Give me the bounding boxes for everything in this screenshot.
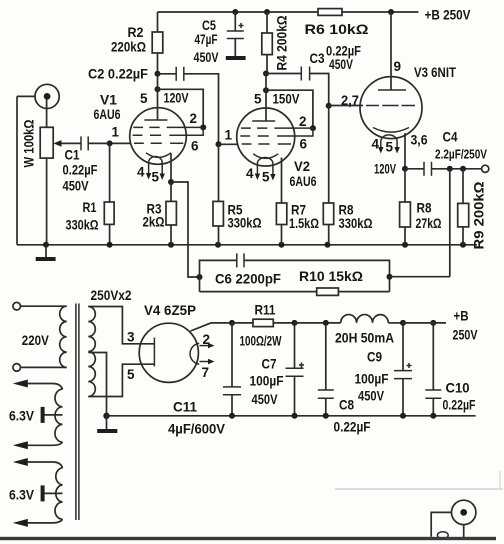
node C2 / V1 plate (155, 71, 161, 77)
svg-text:450V: 450V (252, 391, 279, 407)
svg-text:1: 1 (112, 125, 120, 140)
node V2 pin2 (310, 125, 316, 131)
svg-text:0.22µF: 0.22µF (443, 397, 476, 413)
svg-text:100Ω/2W: 100Ω/2W (240, 333, 283, 349)
tube V4 6Z5P rectifier (139, 323, 198, 382)
wire V1 grid pin1 (110, 142, 131, 144)
wire secondary bottom to V4 pin 5 (88, 364, 154, 396)
capacitor C3 (266, 73, 301, 75)
choke 20H 50mA (341, 315, 389, 323)
wire secondary center tap (88, 353, 106, 416)
6.3V winding 2 top arrow (25, 461, 53, 463)
transformer secondary 250Vx2 winding (88, 307, 95, 397)
svg-text:6: 6 (191, 139, 199, 154)
svg-text:C6 2200pF: C6 2200pF (215, 271, 281, 287)
svg-text:C3: C3 (310, 50, 325, 66)
capacitor C5 (234, 12, 236, 31)
capacitor C7 (294, 323, 296, 368)
wire choke to C9 node (388, 322, 403, 324)
wire 150V box to pins 2,6 of V2 (266, 90, 313, 128)
svg-text:330kΩ: 330kΩ (66, 217, 99, 233)
wire secondary top to V4 pin 3 (88, 307, 154, 344)
resistor R11 (232, 322, 253, 324)
svg-text:2: 2 (299, 114, 307, 129)
svg-text:330kΩ: 330kΩ (339, 215, 373, 231)
node V2 plate box (263, 87, 269, 93)
svg-text:C4: C4 (443, 129, 458, 145)
wire V1 cathode lead (170, 154, 172, 183)
resistor R1 (109, 143, 111, 202)
wire jack left leg (431, 512, 451, 536)
wire V2 plate lead (265, 90, 267, 121)
page bottom border (0, 537, 496, 540)
resistor R7 (276, 203, 286, 225)
capacitor C9 (402, 323, 404, 371)
svg-text:V2: V2 (294, 158, 310, 174)
transformer primary 220V winding (60, 306, 67, 367)
svg-text:6AU6: 6AU6 (290, 173, 317, 189)
transformer core (75, 304, 77, 521)
wire left down to ground bus (16, 96, 18, 244)
svg-text:5: 5 (386, 140, 394, 155)
svg-text:250Vx2: 250Vx2 (91, 287, 132, 303)
node C6 right (387, 274, 393, 280)
svg-text:150V: 150V (273, 91, 301, 107)
svg-text:6.3V: 6.3V (9, 408, 35, 424)
svg-text:47µF: 47µF (195, 31, 218, 47)
6.3V winding 2 center tap (44, 492, 62, 494)
svg-text:20H 50mA: 20H 50mA (335, 330, 394, 346)
svg-text:9: 9 (394, 59, 402, 74)
svg-text:R8: R8 (417, 200, 432, 216)
svg-text:6.3V: 6.3V (9, 487, 35, 503)
svg-text:4: 4 (137, 165, 145, 180)
svg-text:4µF/600V: 4µF/600V (168, 421, 226, 437)
svg-text:27kΩ: 27kΩ (416, 215, 442, 231)
svg-text:C11: C11 (173, 399, 197, 415)
svg-text:C8: C8 (339, 397, 354, 413)
capacitor C6 (200, 260, 237, 291)
node C5 top (232, 9, 238, 15)
tube V2 6AU6 (237, 108, 295, 166)
node C6 left (197, 274, 203, 280)
svg-text:3: 3 (127, 330, 135, 345)
svg-text:450V: 450V (329, 56, 353, 72)
wire feedback from V1 cathode (171, 182, 200, 277)
capacitor C11 (231, 323, 233, 387)
capacitor C10 (432, 323, 434, 390)
6.3V winding 1 top arrow (25, 383, 53, 385)
wire V4 cathode output (191, 323, 233, 331)
cathode arrows V4 pins 2,7 (200, 345, 210, 347)
resistor R10 (200, 291, 317, 293)
heater arrows V1 pins 4,5 (148, 170, 150, 174)
capacitor C2 (158, 73, 177, 75)
node C11 top (229, 320, 235, 326)
svg-text:120V: 120V (164, 90, 190, 106)
6.3V winding 1 center tap (44, 414, 62, 416)
ground under C5 (226, 56, 246, 60)
wire C2 to V2 grid (184, 74, 219, 145)
svg-text:5: 5 (262, 170, 270, 185)
node V3 plate (388, 9, 394, 15)
wire top B+ bus left (158, 11, 319, 13)
wire top B+ bus right (342, 11, 419, 13)
svg-text:120V: 120V (374, 161, 396, 177)
mains terminal top (13, 302, 21, 310)
wire V1 plate lead (157, 89, 159, 120)
potentiometer W 100k (46, 99, 48, 127)
node C7 top (292, 320, 298, 326)
wire mains bottom (21, 366, 67, 368)
svg-text:4: 4 (246, 166, 254, 181)
wire V2 cathode lead (281, 158, 283, 204)
node V1 grid (107, 140, 113, 146)
svg-text:250V: 250V (453, 327, 479, 343)
capacitor C4 (405, 168, 424, 170)
feedback riser from output (449, 169, 451, 277)
svg-text:0.22µF: 0.22µF (63, 162, 98, 178)
svg-text:2,7: 2,7 (341, 92, 359, 108)
svg-text:220V: 220V (22, 332, 50, 348)
svg-text:450V: 450V (358, 388, 385, 404)
input jack (35, 84, 59, 108)
resistor R5 (216, 141, 222, 147)
node V3 cathode 120V (402, 166, 408, 172)
wire V3 cathode lead (404, 133, 406, 169)
svg-text:2.2µF/250V: 2.2µF/250V (435, 147, 487, 162)
resistor R8 330k (326, 103, 332, 109)
wire jack bottom leg (463, 525, 465, 537)
ground symbol transformer (106, 416, 108, 429)
resistor R3 (170, 182, 172, 201)
svg-text:+B 250V: +B 250V (425, 7, 472, 23)
svg-text:R10 15kΩ: R10 15kΩ (299, 268, 363, 284)
resistor R6 (318, 9, 342, 16)
svg-text:3,6: 3,6 (411, 132, 428, 148)
wire feedback to C6 network (390, 276, 450, 278)
svg-text:W 100kΩ: W 100kΩ (21, 120, 37, 168)
svg-text:R1: R1 (83, 199, 97, 215)
svg-text:450V: 450V (63, 178, 90, 194)
resistor R4 (266, 12, 268, 33)
svg-text:5: 5 (140, 91, 148, 106)
svg-text:0.22µF: 0.22µF (334, 419, 371, 435)
mains terminal bottom (13, 364, 21, 372)
resistor R8 27k (404, 169, 406, 202)
svg-text:C2 0.22µF: C2 0.22µF (88, 66, 148, 82)
node V1 plate box (155, 86, 161, 92)
svg-text:450V: 450V (194, 49, 220, 65)
node center tap ground (103, 413, 109, 419)
svg-text:6AU6: 6AU6 (94, 106, 121, 122)
node R4 top (264, 9, 270, 15)
svg-text:C7: C7 (262, 356, 277, 372)
output jack bottom right (452, 500, 476, 524)
resistor R9 (462, 169, 464, 204)
wire mains top (21, 305, 67, 307)
tube V1 6AU6 (130, 108, 187, 165)
wire to choke (295, 322, 341, 324)
node after C4 (447, 166, 453, 172)
resistor R2 (157, 12, 159, 32)
bottom ground bus (107, 415, 476, 417)
node C8 top (323, 320, 329, 326)
svg-text:2: 2 (203, 332, 211, 347)
svg-text:C1: C1 (65, 147, 80, 163)
small ellipse mark (437, 532, 448, 539)
svg-text:V3 6NIT: V3 6NIT (414, 64, 456, 80)
svg-text:5: 5 (152, 170, 160, 185)
node C9 top (400, 320, 406, 326)
svg-text:C10: C10 (446, 380, 470, 396)
node V1 cathode (168, 179, 174, 185)
svg-text:1: 1 (225, 128, 233, 143)
svg-text:330kΩ: 330kΩ (228, 215, 262, 231)
svg-text:2: 2 (190, 111, 198, 126)
6.3V winding 1 bottom arrow (25, 442, 63, 445)
6.3V winding 2 (55, 468, 63, 519)
svg-text:C9: C9 (367, 349, 382, 365)
pot wiper arrow (59, 142, 81, 144)
svg-text:6: 6 (300, 137, 308, 152)
6.3V winding 1 (55, 389, 63, 442)
node C10 top (430, 320, 436, 326)
svg-text:+B: +B (454, 308, 469, 324)
tube V3 6N1T (360, 77, 422, 139)
svg-text:4: 4 (372, 137, 380, 152)
node V1 pin2 (200, 124, 206, 130)
heater arrows V2 pins 4,5 (256, 171, 258, 175)
svg-text:220kΩ: 220kΩ (111, 39, 146, 55)
svg-text:1.5kΩ: 1.5kΩ (289, 215, 319, 231)
svg-text:R11: R11 (255, 302, 276, 318)
svg-text:100µF: 100µF (355, 371, 389, 387)
svg-text:R9 200kΩ: R9 200kΩ (471, 182, 487, 250)
heater arrows V3 pins 4,5 (378, 147, 383, 154)
svg-text:V4 6Z5P: V4 6Z5P (144, 302, 196, 318)
6.3V winding 2 bottom arrow (25, 519, 63, 523)
svg-text:5: 5 (254, 92, 262, 107)
svg-text:100µF: 100µF (250, 373, 284, 389)
faint scan line (335, 488, 503, 490)
wire V2 grid pin1 (219, 143, 238, 145)
ground bus (17, 244, 477, 246)
node C3 left (263, 71, 269, 77)
ground symbol left (45, 245, 47, 257)
svg-text:R6 10kΩ: R6 10kΩ (305, 21, 369, 37)
svg-text:R4 200kΩ: R4 200kΩ (274, 16, 290, 71)
wire jack left (17, 95, 36, 97)
wire C3 to V3 grid (310, 74, 329, 106)
output terminal (482, 165, 489, 172)
node R9 top (460, 166, 466, 172)
wire 120V box to pins 2,6 of V1 (158, 89, 204, 127)
capacitor C1 (80, 136, 82, 150)
svg-text:2kΩ: 2kΩ (143, 214, 165, 230)
svg-text:7: 7 (202, 365, 210, 380)
capacitor C8 (325, 323, 327, 390)
svg-text:5: 5 (127, 367, 135, 382)
